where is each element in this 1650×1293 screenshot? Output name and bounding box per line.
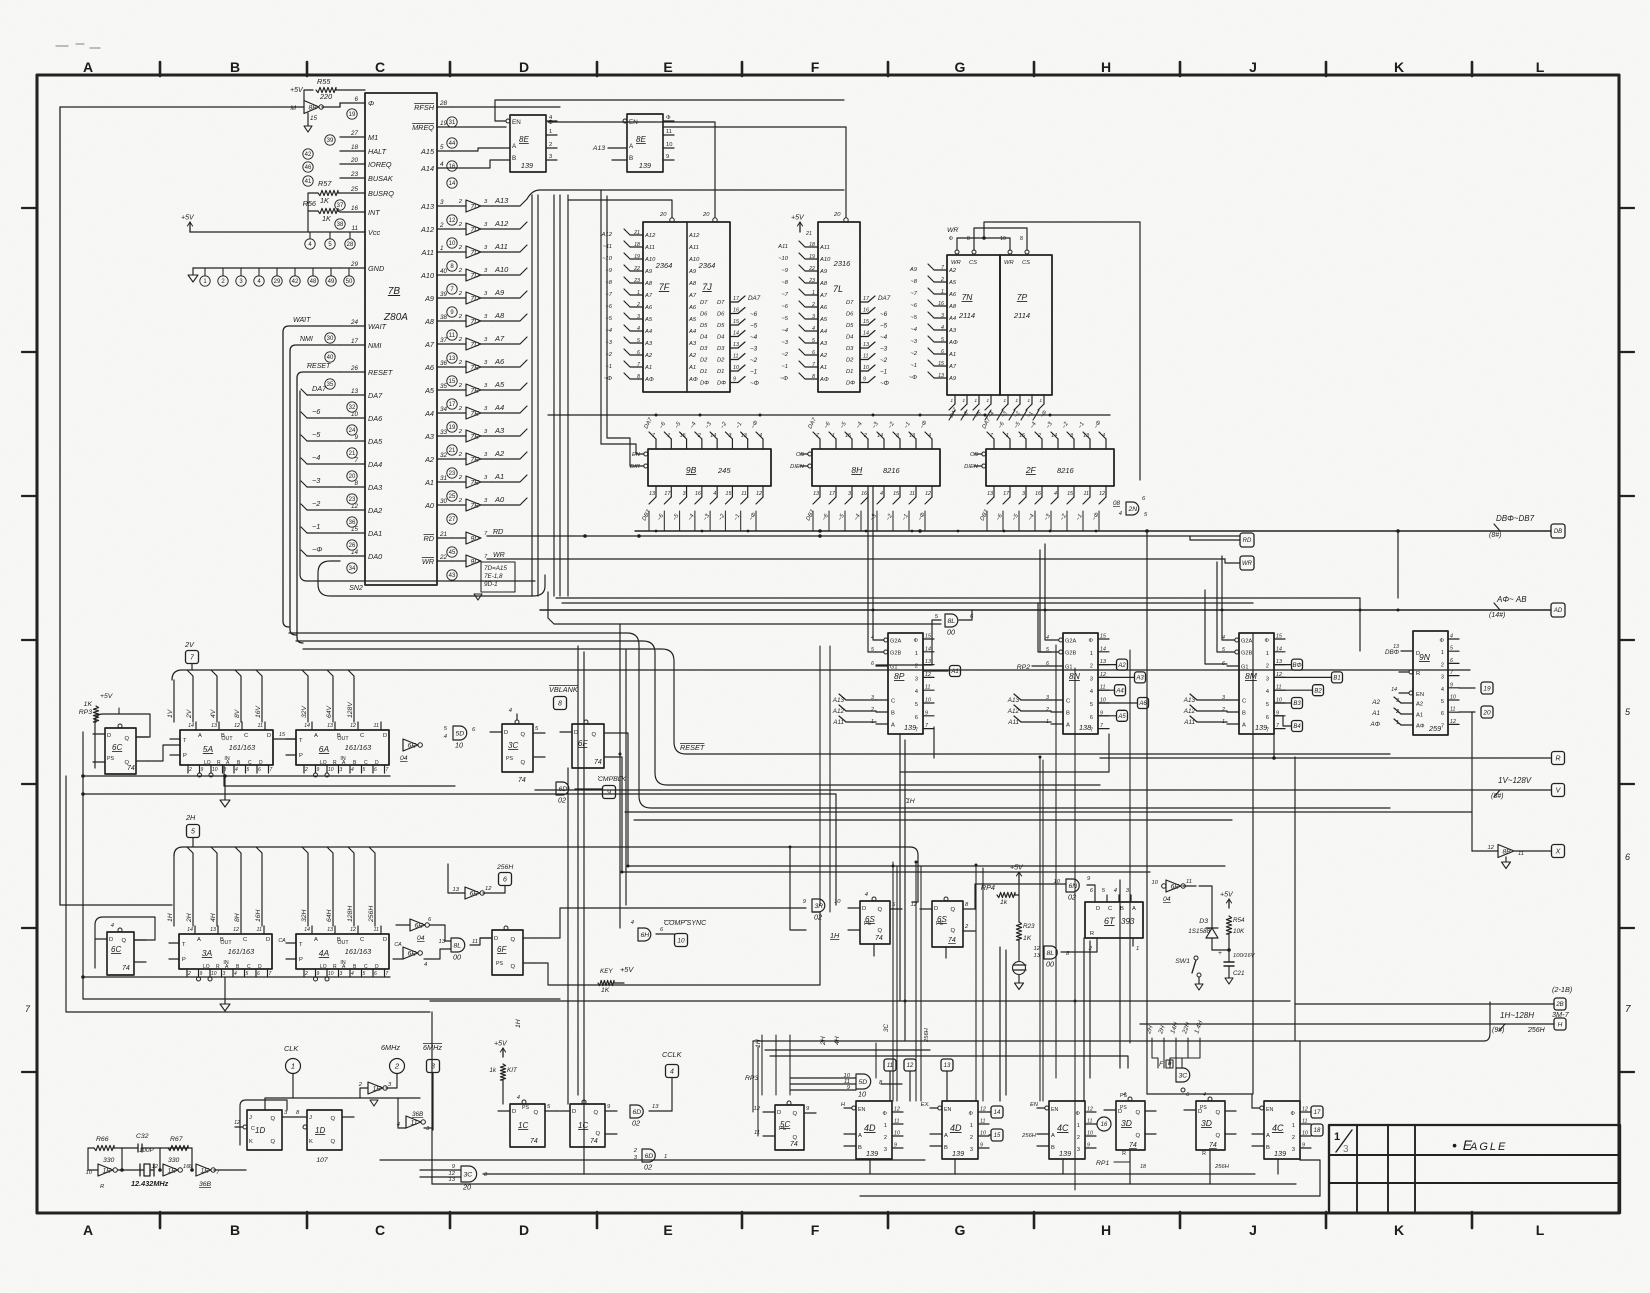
svg-text:DA7: DA7 <box>368 391 383 400</box>
svg-text:1: 1 <box>637 290 640 296</box>
svg-text:C: C <box>244 733 248 739</box>
svg-text:15: 15 <box>845 433 851 439</box>
R23 1K resistor <box>1016 922 1021 940</box>
svg-text:6C: 6C <box>112 743 122 752</box>
svg-text:A: A <box>1066 723 1070 729</box>
svg-text:19: 19 <box>349 112 356 118</box>
svg-text:3: 3 <box>896 433 899 439</box>
svg-text:D: D <box>109 937 113 943</box>
wires MREQ A15 A14 to 8E#1 <box>452 126 506 128</box>
svg-text:256H: 256H <box>1527 1027 1546 1034</box>
svg-text:3: 3 <box>440 199 444 206</box>
svg-text:Q: Q <box>1215 1110 1220 1116</box>
svg-text:02: 02 <box>632 1119 640 1128</box>
wire left verticals counters loop <box>66 776 430 1012</box>
svg-text:EX.: EX. <box>921 1102 930 1108</box>
svg-text:2364: 2364 <box>698 261 716 270</box>
svg-text:26: 26 <box>350 365 359 372</box>
svg-text:11: 11 <box>925 685 931 691</box>
svg-text:A8: A8 <box>644 281 653 287</box>
svg-text:12: 12 <box>234 723 240 729</box>
svg-text:J: J <box>249 1115 252 1121</box>
svg-text:5: 5 <box>191 829 195 836</box>
svg-text:1H: 1H <box>830 931 840 940</box>
svg-text:Φ: Φ <box>1089 638 1094 644</box>
3C input lines 2H..64H <box>1152 1038 1158 1068</box>
svg-text:36: 36 <box>440 360 448 367</box>
svg-text:T: T <box>299 942 303 948</box>
svg-text:DA2: DA2 <box>368 506 382 515</box>
svg-text:A7: A7 <box>494 334 505 343</box>
svg-text:1: 1 <box>291 1062 295 1071</box>
svg-text:10: 10 <box>666 142 672 148</box>
svg-text:D6: D6 <box>717 312 725 318</box>
side ticks <box>1619 207 1634 209</box>
svg-text:~5: ~5 <box>910 315 917 321</box>
svg-text:A13: A13 <box>832 697 845 704</box>
svg-text:LO: LO <box>320 760 327 766</box>
svg-text:11: 11 <box>1084 491 1090 497</box>
mid-band cascade from left loops <box>289 633 1390 808</box>
svg-text:R: R <box>1122 1151 1126 1157</box>
svg-text:~6: ~6 <box>910 303 917 309</box>
svg-text:7F: 7F <box>659 282 670 292</box>
svg-text:13: 13 <box>210 927 216 933</box>
svg-text:6: 6 <box>1441 711 1444 717</box>
svg-text:B: B <box>337 733 341 739</box>
svg-text:C: C <box>360 937 364 943</box>
svg-text:D: D <box>259 760 263 766</box>
svg-text:A2: A2 <box>424 455 434 464</box>
svg-text:5: 5 <box>246 971 249 977</box>
IC 4A 161/163 counter <box>296 934 389 969</box>
svg-text:4: 4 <box>865 892 868 898</box>
svg-text:~2: ~2 <box>910 351 917 357</box>
H line 1H <box>173 856 175 926</box>
svg-text:1: 1 <box>950 398 953 404</box>
svg-text:B: B <box>221 733 225 739</box>
svg-text:A3: A3 <box>819 341 828 347</box>
svg-text:WAIT: WAIT <box>368 322 387 331</box>
svg-text:1E: 1E <box>201 1167 210 1174</box>
svg-text:10: 10 <box>455 741 463 750</box>
svg-text:2: 2 <box>697 433 701 439</box>
svg-text:A2: A2 <box>688 353 697 359</box>
A13 wire to 8E#2 <box>608 147 627 149</box>
svg-text:A9: A9 <box>424 294 434 303</box>
svg-text:15: 15 <box>863 319 869 325</box>
svg-text:32: 32 <box>440 452 448 459</box>
svg-text:Q: Q <box>520 732 525 738</box>
svg-text:4: 4 <box>1114 888 1117 894</box>
svg-text:3C: 3C <box>508 741 518 750</box>
svg-text:14: 14 <box>863 331 869 337</box>
svg-text:1: 1 <box>986 398 989 404</box>
svg-text:A6: A6 <box>948 292 957 298</box>
R54 10K resistor <box>1228 899 1230 908</box>
svg-text:A7: A7 <box>819 293 828 299</box>
svg-text:3: 3 <box>683 491 686 497</box>
svg-text:7: 7 <box>915 728 918 734</box>
svg-text:14: 14 <box>925 646 931 652</box>
svg-text:9: 9 <box>980 1143 983 1149</box>
svg-text:41: 41 <box>305 179 312 185</box>
svg-text:16: 16 <box>1035 491 1041 497</box>
svg-text:13: 13 <box>1393 644 1399 650</box>
svg-text:4: 4 <box>517 1095 520 1101</box>
svg-text:3: 3 <box>340 767 343 773</box>
svg-text:AΦ~ AB: AΦ~ AB <box>1496 595 1527 604</box>
svg-text:M1: M1 <box>368 133 378 142</box>
IC 1D flip-flop #2 <box>307 1110 342 1150</box>
svg-text:10: 10 <box>863 365 869 371</box>
svg-text:330: 330 <box>168 1157 180 1164</box>
svg-text:5: 5 <box>440 144 444 151</box>
svg-text:L: L <box>1536 59 1545 75</box>
svg-text:17: 17 <box>733 296 740 302</box>
V line 64V <box>327 670 333 722</box>
IC 7L 2316 ROM <box>818 222 860 392</box>
svg-text:35: 35 <box>327 382 334 388</box>
tags 14 15 <box>991 1106 1003 1118</box>
svg-text:04: 04 <box>400 755 408 762</box>
extra bottom-mid horizontals <box>765 1049 930 1051</box>
2N NAND above DB bus <box>1126 502 1139 515</box>
NAND 8L #2 <box>1044 946 1057 959</box>
svg-text:11: 11 <box>258 723 264 729</box>
IC U7B Z80A CPU <box>365 93 437 585</box>
svg-text:2: 2 <box>1441 662 1444 668</box>
svg-text:10: 10 <box>1450 695 1456 701</box>
svg-text:A9: A9 <box>494 288 505 297</box>
svg-text:1K: 1K <box>322 214 332 223</box>
svg-text:24: 24 <box>350 319 359 326</box>
X vertical <box>1471 712 1473 851</box>
svg-text:14: 14 <box>187 927 193 933</box>
svg-text:4: 4 <box>351 767 354 773</box>
svg-text:A9: A9 <box>644 269 653 275</box>
svg-text:08: 08 <box>1113 500 1121 507</box>
svg-text:D5: D5 <box>846 323 854 329</box>
Z80 right pins <box>437 106 452 108</box>
svg-text:6: 6 <box>915 715 918 721</box>
inverter out loop to X <box>1195 886 1197 918</box>
wires decoder row to 6S <box>790 847 806 930</box>
svg-text:1: 1 <box>1292 1123 1295 1129</box>
svg-text:7: 7 <box>1090 728 1093 734</box>
svg-text:6: 6 <box>941 349 944 355</box>
svg-text:A4: A4 <box>1115 688 1124 694</box>
svg-text:A1: A1 <box>494 472 504 481</box>
svg-text:C: C <box>364 964 368 970</box>
svg-text:7P: 7P <box>1017 292 1028 302</box>
transceiver to DB bus verticals <box>655 486 657 531</box>
svg-text:PS: PS <box>1120 1093 1128 1099</box>
svg-text:6F: 6F <box>497 945 507 954</box>
svg-text:10: 10 <box>677 937 685 944</box>
svg-text:6N: 6N <box>1069 883 1078 890</box>
svg-text:A: A <box>314 937 318 943</box>
svg-text:2114: 2114 <box>958 311 975 320</box>
svg-text:2114: 2114 <box>1013 311 1030 320</box>
svg-text:128H: 128H <box>347 906 354 922</box>
svg-text:256H: 256H <box>1021 1133 1037 1139</box>
svg-text:20: 20 <box>1482 709 1491 716</box>
H line 32H <box>302 847 308 926</box>
svg-text:WR: WR <box>1242 561 1253 567</box>
svg-text:3D: 3D <box>1201 1118 1212 1128</box>
svg-text:A1: A1 <box>644 365 652 371</box>
svg-text:11: 11 <box>910 491 916 497</box>
svg-text:9: 9 <box>354 434 358 441</box>
svg-text:X: X <box>1555 849 1561 856</box>
svg-text:R55: R55 <box>317 77 331 86</box>
svg-text:1K: 1K <box>320 196 330 205</box>
svg-text:1D: 1D <box>315 1126 325 1135</box>
inverter 6E #2 <box>410 919 425 931</box>
svg-text:A2: A2 <box>948 268 957 274</box>
svg-text:L: L <box>1536 1222 1545 1238</box>
svg-text:10: 10 <box>449 241 456 247</box>
vertical 8P G1 from 8L <box>968 610 972 620</box>
svg-text:15: 15 <box>449 379 456 385</box>
svg-text:11: 11 <box>741 491 747 497</box>
svg-text:DA7: DA7 <box>748 295 761 302</box>
svg-text:15: 15 <box>279 732 285 738</box>
svg-text:139: 139 <box>639 161 651 170</box>
V signal bus <box>172 670 1470 680</box>
2-18/H verticals right <box>1294 1004 1296 1041</box>
IC 7F 2364 ROM <box>643 222 730 392</box>
inverter 6E to 256H tag <box>465 887 480 899</box>
svg-text:3: 3 <box>1396 698 1399 704</box>
svg-text:6: 6 <box>1450 658 1453 664</box>
svg-text:17: 17 <box>351 338 359 345</box>
X buffer and tag <box>1498 845 1514 858</box>
svg-text:15: 15 <box>1100 634 1106 640</box>
svg-text:4C: 4C <box>1057 1123 1069 1133</box>
svg-text:~3: ~3 <box>312 476 320 485</box>
svg-text:74: 74 <box>948 937 956 944</box>
svg-text:A8: A8 <box>948 304 957 310</box>
svg-text:2: 2 <box>1266 664 1269 670</box>
svg-text:15: 15 <box>1276 634 1282 640</box>
svg-text:12: 12 <box>1087 1107 1093 1113</box>
svg-text:245: 245 <box>717 466 731 475</box>
svg-text:A11: A11 <box>777 244 788 250</box>
svg-text:+5V: +5V <box>620 965 634 974</box>
svg-text:5: 5 <box>247 767 250 773</box>
svg-text:A13: A13 <box>494 196 509 205</box>
svg-text:LO: LO <box>204 760 211 766</box>
svg-text:D2: D2 <box>846 358 854 364</box>
svg-text:A11: A11 <box>1007 719 1019 726</box>
svg-text:9: 9 <box>1450 682 1453 688</box>
6S bottom stubs <box>873 944 875 956</box>
svg-text:K: K <box>1394 59 1404 75</box>
svg-text:1E: 1E <box>168 1167 177 1174</box>
svg-text:23: 23 <box>808 278 815 284</box>
svg-text:12: 12 <box>233 927 239 933</box>
svg-text:15: 15 <box>1067 491 1073 497</box>
IC 5C 74 flip-flop <box>775 1105 804 1150</box>
svg-text:A12: A12 <box>1007 708 1020 715</box>
svg-text:139: 139 <box>521 161 533 170</box>
svg-text:D: D <box>375 760 379 766</box>
svg-text:8: 8 <box>354 480 358 487</box>
svg-text:4: 4 <box>1450 634 1453 640</box>
svg-text:2: 2 <box>1045 707 1049 713</box>
svg-text:1: 1 <box>1334 1131 1340 1143</box>
bottom ruler <box>159 1212 162 1228</box>
svg-text:A15: A15 <box>420 147 435 156</box>
svg-text:Q: Q <box>1135 1110 1140 1116</box>
svg-text:A11: A11 <box>832 719 844 726</box>
svg-text:4: 4 <box>1441 687 1444 693</box>
H line 4H <box>211 847 217 926</box>
svg-text:27: 27 <box>449 517 456 523</box>
svg-text:7D: 7D <box>471 295 480 302</box>
svg-text:A1: A1 <box>948 352 956 358</box>
svg-text:393: 393 <box>1121 917 1135 926</box>
svg-text:8E: 8E <box>636 135 646 144</box>
svg-text:4: 4 <box>440 161 444 168</box>
svg-text:1E: 1E <box>103 1167 112 1174</box>
svg-text:7: 7 <box>270 767 273 773</box>
H line 2H <box>187 847 193 926</box>
svg-text:Q: Q <box>792 1135 797 1141</box>
NAND 3C bottom right <box>1176 1068 1190 1082</box>
svg-text:74: 74 <box>875 935 883 942</box>
svg-text:Φ: Φ <box>949 236 953 242</box>
svg-text:107: 107 <box>316 1157 328 1164</box>
svg-text:11: 11 <box>257 927 263 933</box>
RD line junctions <box>583 534 587 538</box>
svg-text:~7: ~7 <box>781 292 788 298</box>
svg-text:16: 16 <box>449 164 456 170</box>
svg-text:04: 04 <box>417 935 425 942</box>
svg-text:C: C <box>1242 699 1246 705</box>
svg-text:PS: PS <box>864 921 872 927</box>
IC 1C flip-flop #2 <box>570 1104 605 1147</box>
svg-text:13: 13 <box>733 342 739 348</box>
svg-text:(14#): (14#) <box>1489 612 1505 619</box>
svg-text:3C: 3C <box>464 1171 473 1178</box>
svg-text:4: 4 <box>1054 491 1057 497</box>
svg-text:A12: A12 <box>494 219 509 228</box>
H signal bus <box>174 847 910 856</box>
svg-text:DBΦ~DB7: DBΦ~DB7 <box>1496 514 1535 523</box>
svg-text:20: 20 <box>702 212 710 218</box>
loop around 1D pair <box>240 1100 287 1145</box>
svg-text:27: 27 <box>350 130 359 137</box>
svg-text:AΦ: AΦ <box>1416 724 1425 730</box>
svg-text:3: 3 <box>1070 433 1073 439</box>
svg-text:12: 12 <box>1450 719 1456 725</box>
svg-text:4: 4 <box>759 433 762 439</box>
svg-text:7D: 7D <box>471 249 480 256</box>
svg-text:19: 19 <box>809 254 815 260</box>
svg-text:F: F <box>811 1222 820 1238</box>
svg-text:49: 49 <box>328 279 335 285</box>
svg-text:1k: 1k <box>489 1067 497 1074</box>
svg-text:7D: 7D <box>471 203 480 210</box>
svg-text:AΦ: AΦ <box>948 340 958 346</box>
svg-text:D: D <box>572 1109 576 1115</box>
svg-text:14: 14 <box>304 723 310 729</box>
svg-text:13: 13 <box>652 1104 659 1110</box>
svg-text:~7: ~7 <box>910 291 917 297</box>
svg-text:12: 12 <box>234 1120 240 1126</box>
+5V KIT pullup <box>502 1048 504 1057</box>
svg-text:6: 6 <box>257 971 260 977</box>
svg-text:3: 3 <box>637 314 640 320</box>
svg-text:INT: INT <box>368 208 380 217</box>
long clock wire from left <box>60 106 304 108</box>
svg-text:10: 10 <box>212 767 218 773</box>
Z80 right connector circles <box>447 117 457 127</box>
svg-text:~6: ~6 <box>312 407 321 416</box>
transceiver bottom drop verticals <box>648 511 650 531</box>
svg-text:~6: ~6 <box>750 311 758 318</box>
svg-text:5: 5 <box>1090 702 1093 708</box>
svg-text:BUSRQ: BUSRQ <box>368 189 394 198</box>
svg-text:5: 5 <box>812 338 815 344</box>
IC 4D 139 counter <box>856 1101 892 1159</box>
svg-text:B: B <box>1066 711 1070 717</box>
svg-text:8B: 8B <box>1503 848 1512 855</box>
left vertical RP3 feed <box>82 732 84 999</box>
svg-text:A7: A7 <box>644 293 653 299</box>
verticals to 8M G inputs <box>1222 556 1227 640</box>
svg-text:8V: 8V <box>234 708 241 718</box>
Z80 left pins <box>340 102 365 104</box>
svg-text:2H: 2H <box>185 813 196 822</box>
svg-text:B: B <box>1051 1145 1055 1151</box>
svg-text:16: 16 <box>863 308 869 314</box>
svg-text:13: 13 <box>741 433 747 439</box>
address trunk verticals <box>531 195 533 596</box>
svg-text:A: A <box>314 733 318 739</box>
vertical x873 8P G input <box>873 486 876 640</box>
svg-text:C32: C32 <box>136 1133 149 1140</box>
svg-text:17: 17 <box>449 402 456 408</box>
svg-text:~4: ~4 <box>880 334 888 341</box>
svg-text:Vcc: Vcc <box>368 228 381 237</box>
svg-text:2: 2 <box>863 433 867 439</box>
svg-text:5: 5 <box>363 767 366 773</box>
svg-text:4: 4 <box>1203 1092 1206 1098</box>
NOR 6N gate <box>1066 879 1079 892</box>
IC 6S 74 flip-flop #1 <box>860 901 890 944</box>
svg-text:G: G <box>955 59 966 75</box>
svg-text:23: 23 <box>350 171 359 178</box>
wire RFSH right <box>452 106 560 108</box>
svg-text:30: 30 <box>327 336 334 342</box>
svg-text:139: 139 <box>866 1149 878 1158</box>
svg-text:8B: 8B <box>309 104 318 111</box>
svg-text:11: 11 <box>1087 1119 1093 1125</box>
svg-text:128V: 128V <box>347 701 354 718</box>
svg-text:A8: A8 <box>424 317 435 326</box>
svg-text:13: 13 <box>813 491 819 497</box>
svg-text:10: 10 <box>733 365 739 371</box>
svg-text:B: B <box>512 155 516 162</box>
svg-text:4: 4 <box>637 326 640 332</box>
6T out to inverter <box>1143 886 1164 910</box>
svg-text:11: 11 <box>733 354 739 360</box>
svg-text:161/163: 161/163 <box>228 947 254 956</box>
